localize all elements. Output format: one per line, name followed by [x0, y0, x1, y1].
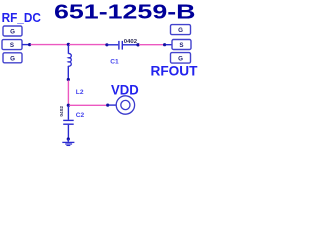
svg-text:S: S [179, 42, 183, 49]
pin-end dot below L2 [67, 78, 70, 81]
wire L2 to junction B [67, 80, 69, 104]
svg-text:0402: 0402 [59, 106, 64, 117]
svg-text:651-1259-B: 651-1259-B [54, 1, 196, 23]
pad S (right) [172, 40, 191, 50]
svg-text:S: S [10, 42, 14, 49]
svg-text:RFOUT: RFOUT [151, 63, 198, 79]
pin-end dot VDD [106, 104, 109, 107]
pin-end dot left S [28, 43, 31, 46]
pin-end dot right S [163, 43, 166, 46]
pad G2 (left) [3, 53, 22, 63]
pad G1 (left) [3, 26, 22, 36]
junction node A [67, 43, 70, 46]
inductor L2 [68, 54, 71, 79]
svg-text:VDD: VDD [111, 83, 139, 98]
pin-end dot above ground [67, 137, 70, 140]
ground [62, 139, 74, 146]
capacitor C1 [105, 41, 139, 50]
wire net RF_DC to junction [31, 44, 69, 46]
junction node B [67, 104, 70, 107]
pad G2 (right) [171, 53, 191, 64]
wire C1 to right port [139, 44, 163, 46]
pin stub from left S pad [22, 44, 29, 46]
svg-text:G: G [10, 29, 15, 36]
svg-text:0402: 0402 [124, 39, 137, 45]
pad S (left) [2, 40, 22, 50]
wire junction A down to L2 [67, 45, 69, 54]
svg-text:G: G [10, 55, 15, 62]
svg-text:C1: C1 [110, 59, 119, 66]
power symbol VDD circle [116, 96, 134, 114]
svg-text:C2: C2 [76, 112, 85, 119]
svg-text:L2: L2 [76, 89, 84, 96]
svg-text:RF_DC: RF_DC [2, 10, 42, 25]
pin stub to right S pad [166, 44, 172, 46]
wire junction to C1 [69, 44, 106, 46]
power symbol VDD pin [109, 104, 117, 106]
svg-text:G: G [178, 27, 183, 34]
capacitor C2 [63, 120, 73, 137]
wire junction B to VDD [69, 104, 106, 106]
svg-text:G: G [178, 56, 183, 63]
wire junction B down to C2 [67, 106, 69, 120]
pad G1 (right) [171, 25, 191, 35]
